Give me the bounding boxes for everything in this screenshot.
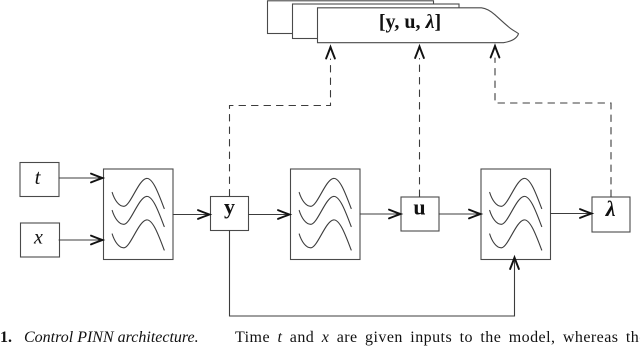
NN block 1 xyxy=(104,169,174,260)
paper stack back sheet xyxy=(268,1,434,34)
svg-text:x: x xyxy=(33,227,43,249)
arrow y to NN2 xyxy=(249,210,291,219)
dashed arrow from lambda up to stack xyxy=(491,46,611,197)
box u xyxy=(401,197,439,231)
arrow x to NN1 xyxy=(59,236,103,245)
arrow t to NN1 xyxy=(59,174,103,183)
dashed arrow from u up to stack xyxy=(415,47,424,197)
NN block 3 xyxy=(481,169,551,260)
svg-text:y: y xyxy=(224,194,235,219)
box lambda xyxy=(592,197,630,232)
paper stack middle sheet xyxy=(293,4,460,39)
arrow NN3 to lambda xyxy=(551,209,592,218)
box t xyxy=(20,163,59,197)
caption xyxy=(0,329,12,347)
svg-text:u: u xyxy=(413,195,425,220)
svg-text:λ: λ xyxy=(605,196,616,221)
stack label [y, u, lambda] xyxy=(379,11,441,33)
paper stack front sheet with curled right edge xyxy=(318,8,519,43)
arrow u to NN3 xyxy=(439,210,481,219)
svg-text:[y, u, λ]: [y, u, λ] xyxy=(379,11,441,33)
box y xyxy=(211,197,249,231)
arrow NN2 to u xyxy=(360,210,401,219)
dashed arrow from y up to stack xyxy=(230,47,335,196)
feedback wire y bottom to NN3 bottom xyxy=(230,231,519,317)
NN block 2 xyxy=(291,169,361,260)
arrow NN1 to y xyxy=(173,210,210,219)
box x xyxy=(21,223,60,257)
